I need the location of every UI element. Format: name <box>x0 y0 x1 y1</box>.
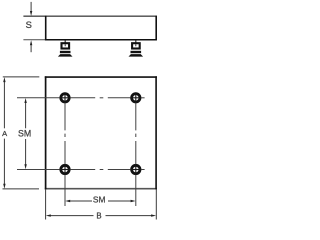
dimension B arrow right <box>151 214 156 216</box>
left foot collar <box>60 51 71 53</box>
svg-text:B: B <box>96 212 101 221</box>
centerline row1 left segment <box>17 97 60 99</box>
dimension A arrow top <box>3 77 5 82</box>
centerline col1 dash <box>64 103 66 131</box>
centerline row1 dash2 <box>108 97 131 99</box>
centerline col1 below <box>64 175 66 206</box>
centerline col2 dot <box>135 134 137 137</box>
hole top-right <box>130 92 141 103</box>
centerline row1 dot <box>100 97 104 99</box>
centerline row2 dash2 <box>108 169 131 171</box>
dimension SM-bottom arrow right <box>131 200 136 202</box>
dimension B extension right <box>155 189 157 220</box>
hole bottom-left <box>60 164 71 175</box>
dimension A arrow bottom <box>3 184 5 189</box>
plan view body outline <box>45 76 157 189</box>
elevation body outline <box>23 16 157 41</box>
dimension A extension bottom <box>3 188 40 190</box>
dimension B line right <box>106 215 153 217</box>
right foot collar <box>131 51 142 53</box>
left foot stub <box>64 40 66 42</box>
centerline row1 right tick <box>141 97 145 99</box>
svg-text:SM: SM <box>18 128 31 138</box>
dimension SM-bottom line right <box>108 200 131 202</box>
dimension SM-bottom line left <box>70 200 93 202</box>
centerline row2 dot <box>100 169 104 171</box>
centerline row1 dash <box>70 97 95 99</box>
right foot stub <box>135 40 137 42</box>
dimension SM-left line lower <box>25 139 27 165</box>
centerline col2 dash2 <box>135 141 137 164</box>
centerline row2 left segment <box>17 169 60 171</box>
left foot body <box>62 43 70 48</box>
left foot inner tick <box>64 44 66 46</box>
svg-text:SM: SM <box>93 194 106 204</box>
dimension B line left <box>50 215 94 217</box>
right foot body <box>132 43 140 48</box>
centerline col2 dash <box>135 103 137 131</box>
dimension SM-left arrow bottom <box>24 164 26 169</box>
dimension S extension line bottom <box>23 39 45 41</box>
dimension B extension left <box>45 189 47 220</box>
centerline col2 below <box>135 175 137 206</box>
dimension A line lower <box>3 139 5 185</box>
centerline col1 dot <box>64 134 66 137</box>
right foot base <box>129 54 144 57</box>
left foot base <box>58 54 73 57</box>
hole bottom-right <box>130 164 141 175</box>
dimension A line upper <box>3 82 5 129</box>
dimension B arrow left <box>46 214 51 216</box>
svg-text:S: S <box>26 19 32 30</box>
dimension SM-left line upper <box>25 103 27 129</box>
dimension A extension top <box>3 76 40 78</box>
centerline row2 right tick <box>141 169 145 171</box>
hole top-left <box>60 92 71 103</box>
centerline row2 dash <box>70 169 95 171</box>
dimension SM-bottom arrow left <box>65 200 70 202</box>
dimension SM-left arrow top <box>24 98 26 103</box>
centerline col1 dash2 <box>64 141 66 164</box>
svg-text:A: A <box>2 129 7 138</box>
dimension S arrow bottom <box>30 40 32 52</box>
dimension S arrow top <box>30 2 32 16</box>
right foot inner tick <box>135 44 137 46</box>
